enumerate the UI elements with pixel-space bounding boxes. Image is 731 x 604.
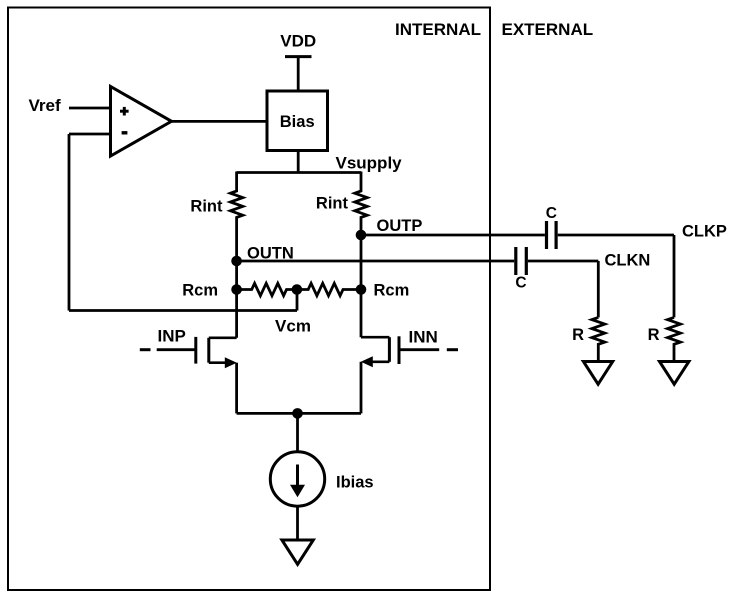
wire Vref to op-amp + input (69, 107, 111, 110)
svg-text:INN: INN (409, 328, 438, 347)
svg-text:Vcm: Vcm (275, 317, 311, 336)
INP input dash (140, 348, 151, 351)
svg-text:Rcm: Rcm (182, 282, 218, 300)
svg-text:Bias: Bias (280, 113, 315, 131)
wire INN gate (399, 348, 439, 351)
svg-text:INTERNAL: INTERNAL (395, 20, 481, 39)
wire OUTP to coupling cap (361, 234, 545, 237)
current source Ibias (270, 452, 324, 506)
wire cap upper to CLKP corner (558, 234, 674, 237)
resistor Rint left (230, 172, 242, 262)
svg-text:Rint: Rint (190, 198, 223, 216)
wire feedback vertical left (68, 134, 71, 311)
svg-text:R: R (572, 326, 584, 344)
svg-text:Vref: Vref (29, 96, 61, 115)
resistor Rcm left (237, 283, 297, 295)
node Rcm left dot (231, 284, 242, 295)
svg-text:Vsupply: Vsupply (336, 154, 403, 173)
wire Bias to supply rail (297, 151, 300, 173)
node tail dot (292, 408, 303, 419)
capacitor C upper plates (545, 221, 548, 249)
svg-text:Rcm: Rcm (374, 282, 410, 300)
svg-text:C: C (546, 205, 557, 222)
wire Q2 source down (360, 362, 363, 414)
ground left (583, 362, 612, 385)
transistor Q1 INP (196, 337, 237, 368)
node Rcm right dot (356, 284, 367, 295)
svg-text:CLKN: CLKN (605, 252, 651, 270)
wire op-amp output to Bias (172, 120, 268, 123)
svg-text:INP: INP (158, 327, 186, 346)
svg-text:EXTERNAL: EXTERNAL (502, 20, 594, 39)
resistor Rint right (355, 172, 367, 236)
svg-text:R: R (648, 326, 660, 344)
svg-text:VDD: VDD (280, 32, 316, 51)
wire CLKN down to resistor (597, 261, 600, 317)
svg-text:OUTP: OUTP (377, 217, 423, 235)
wire OUTN to coupling cap (237, 260, 515, 263)
wire Ibias to ground (296, 506, 299, 540)
ground right (660, 362, 689, 385)
wire Q2 drain to OUTP node (360, 235, 363, 337)
op-amp U1 (111, 87, 172, 157)
wire tail to Ibias (296, 413, 299, 452)
resistor R right (668, 317, 681, 361)
node OUTP dot (356, 230, 367, 241)
tail rail (237, 412, 361, 415)
resistor R left (592, 317, 605, 361)
resistor Rcm right (297, 283, 361, 295)
svg-text:C: C (515, 275, 526, 292)
bias block U2 (267, 91, 328, 151)
node Vcm dot (292, 284, 303, 295)
wire CLKP down to resistor (673, 235, 676, 317)
svg-text:CLKP: CLKP (682, 223, 727, 241)
INN input dash (447, 348, 458, 351)
transistor Q2 INN (361, 336, 399, 367)
VDD supply bar (285, 55, 312, 58)
wire Q1 source down (235, 363, 238, 414)
svg-text:Rint: Rint (316, 195, 349, 213)
wire INP gate (157, 348, 196, 351)
wire op-amp minus input (69, 133, 111, 136)
supply rail (237, 171, 361, 174)
wire cap lower to CLKN corner (528, 260, 598, 263)
internal boundary box (8, 8, 490, 591)
wire Q1 drain to OUTN node (235, 261, 238, 338)
wire VDD to Bias (297, 57, 300, 91)
ground center (282, 540, 313, 564)
node OUTN dot (231, 256, 242, 267)
capacitor C lower plates (514, 247, 517, 275)
svg-text:Ibias: Ibias (336, 474, 374, 492)
wire feedback horizontal bottom (69, 309, 297, 312)
wire feedback up to Vcm node (296, 290, 299, 311)
